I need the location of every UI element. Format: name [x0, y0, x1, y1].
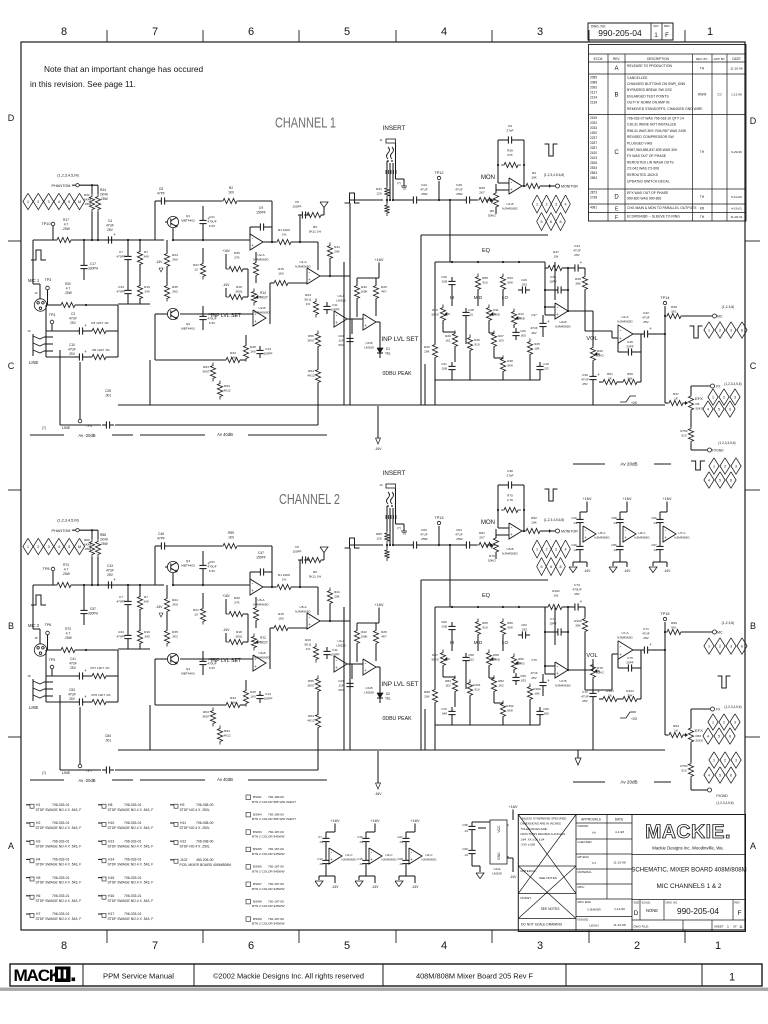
svg-text:.01: .01: [573, 521, 577, 525]
svg-text:R25: R25: [381, 630, 387, 634]
svg-text:U6-C: U6-C: [638, 531, 646, 535]
svg-text:C23: C23: [338, 334, 344, 338]
svg-text:C4: C4: [108, 219, 112, 223]
svg-text:C26: C26: [520, 329, 526, 333]
svg-text:MBT4403: MBT4403: [181, 218, 195, 222]
svg-text:SEE NOTES: SEE NOTES: [541, 907, 561, 911]
svg-text:ECO#094380 -- SLEEVE TO RING: ECO#094380 -- SLEEVE TO RING: [627, 214, 680, 218]
svg-text:50V: 50V: [338, 688, 343, 692]
svg-text:F: F: [665, 33, 669, 39]
svg-text:C67: C67: [651, 543, 657, 547]
EQ MID band resistor: [475, 274, 480, 293]
MONITOR output connector: [540, 530, 549, 532]
svg-text:C37: C37: [531, 313, 537, 317]
svg-text:50KG: 50KG: [596, 670, 605, 674]
svg-text:4K12: 4K12: [307, 373, 315, 377]
svg-text:C39: C39: [462, 847, 468, 851]
svg-text:ENLARGED TEST POINTS: ENLARGED TEST POINTS: [627, 94, 669, 98]
svg-text:R83: R83: [445, 679, 451, 683]
svg-text:20PF: 20PF: [626, 344, 634, 348]
FX connector diamonds: [708, 714, 718, 730]
svg-text:R63: R63: [224, 384, 230, 388]
svg-text:50K9: 50K9: [431, 312, 438, 316]
svg-text:5K11 1%: 5K11 1%: [309, 574, 322, 578]
svg-text:LEIGH: LEIGH: [589, 924, 598, 928]
svg-text:1: 1: [27, 200, 29, 204]
svg-text:50KB: 50KB: [492, 657, 499, 661]
EQ vertical rails: [554, 607, 556, 645]
svg-text:PCB, MIXER BOARD 408M/808M: PCB, MIXER BOARD 408M/808M: [180, 863, 232, 867]
EQ top bus wire: [435, 606, 545, 608]
resistor R89: [89, 539, 94, 558]
mic coupling cap C3: [75, 330, 79, 332]
svg-text:2092: 2092: [590, 85, 597, 89]
svg-text:10K: 10K: [531, 175, 537, 179]
svg-text:+: +: [410, 857, 413, 862]
svg-text:R84: R84: [498, 679, 504, 683]
svg-text:11-20-98: 11-20-98: [730, 66, 742, 70]
svg-text:+: +: [364, 668, 367, 673]
svg-text:APPROVALS: APPROVALS: [581, 818, 602, 822]
svg-text:BTN 2 COLOR 945WW: BTN 2 COLOR 945WW: [252, 922, 285, 926]
svg-text:10: 10: [194, 267, 198, 271]
svg-text:6K49: 6K49: [84, 542, 92, 546]
svg-text:D: D: [8, 113, 15, 123]
cap C9: [256, 226, 260, 228]
svg-text:706-033-01: 706-033-01: [52, 803, 69, 807]
svg-text:(1,2,3,6): (1,2,3,6): [722, 305, 735, 309]
svg-text:.001: .001: [105, 393, 112, 397]
EQ LO pot: [511, 309, 516, 328]
inverted pulse near MC: [690, 326, 703, 338]
LED D1: [377, 348, 383, 353]
svg-text:6: 6: [550, 565, 552, 569]
svg-text:100K: 100K: [360, 289, 368, 293]
svg-text:.01B: .01B: [441, 366, 447, 370]
output cap C32 47UF: [633, 333, 640, 335]
svg-text:C13: C13: [265, 692, 271, 696]
standoff H13: [102, 841, 106, 845]
svg-text:(1,2,3,4,5,6,8): (1,2,3,4,5,6,8): [544, 173, 565, 177]
gain ramp +20 symbol: [620, 712, 636, 718]
resistor R42: [354, 283, 359, 302]
svg-text:H1: H1: [36, 803, 40, 807]
op-amp U1-A: [307, 268, 320, 284]
svg-text:3: 3: [734, 396, 736, 400]
svg-text:SHEET: SHEET: [714, 925, 724, 929]
svg-text:R45: R45: [250, 345, 256, 349]
EQ resistor R27: [491, 331, 496, 350]
svg-text:STDF SWAGE NO.4 X .543, F: STDF SWAGE NO.4 X .543, F: [36, 917, 82, 921]
svg-text:+: +: [597, 372, 600, 377]
svg-text:706-033-01: 706-033-01: [52, 912, 69, 916]
EQ LO band resistor: [500, 619, 505, 638]
op-amp U5-A: [307, 613, 320, 629]
svg-text:150PF: 150PF: [330, 652, 339, 656]
op-amp U2-B: [253, 310, 266, 326]
svg-text:C56: C56: [611, 543, 617, 547]
svg-text:6: 6: [741, 329, 743, 333]
svg-text:J3: J3: [27, 329, 31, 333]
svg-text:+: +: [251, 588, 254, 593]
svg-text:.01: .01: [399, 862, 403, 866]
svg-text:5: 5: [719, 774, 721, 778]
svg-text:R104: R104: [626, 689, 634, 693]
svg-text:R18: R18: [236, 630, 242, 634]
EQ resistor R45 10K: [527, 684, 532, 703]
svg-text:-16V: -16V: [374, 447, 382, 451]
rail wire x421: [420, 235, 422, 405]
svg-text:760-187-00: 760-187-00: [268, 882, 284, 886]
button switch BSW7: [246, 882, 251, 887]
svg-text:3K57: 3K57: [202, 369, 210, 373]
svg-text:Av 40dB: Av 40dB: [217, 777, 233, 782]
svg-text:.25W: .25W: [62, 572, 71, 576]
svg-text:C: C: [750, 361, 757, 371]
svg-text:706-033-01: 706-033-01: [124, 912, 141, 916]
svg-text:C21: C21: [209, 215, 215, 219]
svg-text:8: 8: [559, 565, 561, 569]
svg-text:50KB: 50KB: [517, 316, 524, 320]
svg-text:5K11: 5K11: [305, 297, 312, 301]
svg-text:F: F: [615, 215, 618, 221]
resistor R26: [432, 687, 437, 706]
svg-text:11-23-98: 11-23-98: [613, 923, 625, 927]
electrolytic C61: [202, 561, 204, 565]
svg-text:+: +: [113, 577, 116, 582]
svg-text:REV. BY.: REV. BY.: [696, 57, 708, 61]
svg-text:EFX: EFX: [695, 728, 703, 733]
svg-text:R46: R46: [474, 338, 480, 342]
svg-text:1W: 1W: [554, 254, 559, 258]
cap C47: [256, 571, 260, 573]
resistor R6: [89, 699, 109, 704]
svg-text:2: 2: [634, 940, 640, 952]
svg-text:2237: 2237: [590, 136, 597, 140]
svg-text:706-033-01: 706-033-01: [52, 821, 69, 825]
svg-text:1K0: 1K0: [278, 271, 284, 275]
svg-text:NJM4565G: NJM4565G: [341, 857, 357, 861]
square wave mid: [345, 538, 360, 548]
svg-text:in this revision. See page 11.: in this revision. See page 11.: [30, 79, 136, 89]
svg-text:6.3V: 6.3V: [209, 569, 216, 573]
svg-text:(1,2,3,4,5,6): (1,2,3,4,5,6): [716, 801, 733, 805]
svg-text:1%: 1%: [282, 232, 287, 236]
svg-text:+: +: [580, 260, 583, 265]
svg-text:R44: R44: [100, 188, 106, 192]
transistor Q2: [167, 308, 178, 319]
grid tick marks top: [106, 30, 108, 42]
svg-text:NJM4565G: NJM4565G: [617, 319, 633, 323]
svg-text:LINE: LINE: [29, 705, 39, 710]
cap C64: [462, 544, 466, 546]
svg-text:-16V: -16V: [372, 885, 380, 889]
svg-text:C58: C58: [611, 516, 617, 520]
svg-text:1: 1: [729, 972, 735, 984]
svg-text:+: +: [254, 319, 257, 324]
svg-text:7: 7: [152, 26, 158, 38]
svg-text:760-187-00: 760-187-00: [268, 847, 284, 851]
svg-text:MATERIAL:: MATERIAL:: [578, 870, 593, 874]
svg-text:2K49: 2K49: [100, 192, 108, 196]
feedback cap C45: [155, 545, 157, 547]
svg-text:BTN 2 COLOR 945WW: BTN 2 COLOR 945WW: [252, 835, 285, 839]
svg-text:47UF: 47UF: [420, 532, 428, 536]
svg-text:+: +: [580, 599, 583, 604]
svg-text:2.7K: 2.7K: [507, 498, 514, 502]
svg-text:R76 12K7 1%: R76 12K7 1%: [91, 693, 110, 697]
svg-text:C62: C62: [521, 623, 527, 627]
svg-text:SIZE: SIZE: [634, 901, 640, 905]
button switch BSW3: [246, 830, 251, 835]
op-amp U6-B: [253, 655, 266, 671]
grid tick marks bottom: [106, 930, 108, 943]
svg-text:C7: C7: [318, 835, 322, 839]
resistor R21: [200, 261, 205, 280]
svg-text:C32: C32: [643, 311, 649, 315]
svg-text:+: +: [335, 665, 338, 670]
svg-text:4K12: 4K12: [307, 718, 315, 722]
svg-text:R58: R58: [482, 276, 488, 280]
svg-text:C72: C72: [582, 690, 588, 694]
standoff H10: [102, 822, 106, 826]
volume pot R22 50KG: [590, 345, 595, 364]
standoff H16: [102, 895, 106, 899]
op-amp U4-B: [555, 303, 568, 319]
electrolytic C62: [202, 657, 204, 661]
svg-text:R64: R64: [203, 710, 209, 714]
cap C11: [326, 302, 328, 306]
svg-text:47UF: 47UF: [68, 347, 76, 351]
svg-text:Av 20dB: Av 20dB: [620, 462, 637, 467]
svg-text:U5-C: U5-C: [598, 531, 606, 535]
svg-text:BTN 2 COLOR 945WW: BTN 2 COLOR 945WW: [252, 887, 285, 891]
EFX pot R66 50KG: [683, 734, 685, 736]
svg-text:R103: R103: [606, 689, 614, 693]
svg-text:+: +: [370, 857, 373, 862]
resistor R752 510: [690, 411, 692, 428]
svg-text:47UF: 47UF: [68, 692, 76, 696]
svg-text:APP. BY.: APP. BY.: [714, 57, 726, 61]
svg-text:MON: MON: [481, 175, 495, 181]
svg-text:C10: C10: [69, 343, 75, 347]
svg-text:510: 510: [681, 768, 686, 772]
resistor R91: [476, 542, 496, 547]
svg-text:C31: C31: [441, 362, 447, 366]
svg-text:R96: R96: [671, 621, 677, 625]
svg-text:25V: 25V: [70, 321, 77, 325]
svg-text:330PH: 330PH: [88, 611, 99, 615]
svg-text:6.3V: 6.3V: [209, 321, 216, 325]
svg-text:10K: 10K: [534, 346, 539, 350]
svg-text:C7: C7: [119, 250, 123, 254]
svg-text:-16V: -16V: [510, 875, 518, 879]
svg-text:1-12-99: 1-12-99: [731, 93, 742, 97]
svg-text:+16V: +16V: [222, 594, 230, 598]
svg-text:.033: .033: [520, 678, 526, 682]
svg-text:+16V: +16V: [331, 819, 340, 823]
svg-text:1: 1: [713, 465, 715, 469]
svg-text:.25W: .25W: [455, 192, 462, 196]
MC connector diamonds: [704, 322, 714, 338]
svg-text:30K: 30K: [575, 623, 581, 627]
svg-text:1K0: 1K0: [278, 616, 284, 620]
button switch BSW1: [246, 795, 251, 800]
svg-text:R752: R752: [680, 429, 688, 433]
svg-text:SCHEMATIC, MIXER BOARD 408M/80: SCHEMATIC, MIXER BOARD 408M/808M: [631, 867, 746, 874]
svg-text:R3 12K7 1%: R3 12K7 1%: [91, 321, 109, 325]
svg-text:H4: H4: [36, 858, 40, 862]
title block size/scale/dwg-no row: [639, 900, 641, 921]
svg-text:Av -20dB: Av -20dB: [78, 778, 95, 783]
svg-text:R25: R25: [381, 285, 387, 289]
svg-text:760-189-00: 760-189-00: [268, 795, 284, 799]
svg-text:C70: C70: [441, 707, 447, 711]
svg-text:R23: R23: [305, 638, 311, 642]
svg-text:NJM4565G: NJM4565G: [381, 857, 397, 861]
svg-text:+: +: [84, 694, 87, 699]
svg-text:1: 1: [536, 203, 538, 207]
svg-text:25V: 25V: [107, 228, 114, 232]
svg-text:+: +: [84, 349, 87, 354]
svg-text:50KG: 50KG: [488, 213, 497, 217]
svg-text:H6: H6: [36, 894, 40, 898]
svg-text:706-038-00: 706-038-00: [196, 821, 213, 825]
svg-text:LINE: LINE: [29, 360, 39, 365]
svg-text:R42: R42: [361, 285, 367, 289]
svg-text:990-205-04: 990-205-04: [598, 28, 642, 38]
svg-text:UNLESS OTHERWISE SPECIFIED: UNLESS OTHERWISE SPECIFIED: [521, 817, 567, 821]
svg-text:408M/808M Mixer Board 205 Rev: 408M/808M Mixer Board 205 Rev F: [416, 972, 534, 981]
svg-text:C30,31 WERE NOT INSTALLED: C30,31 WERE NOT INSTALLED: [627, 123, 677, 127]
svg-text:3K0: 3K0: [172, 257, 178, 261]
EQ resistor R29: [452, 331, 457, 350]
svg-text:5K2Y: 5K2Y: [260, 641, 269, 645]
svg-text:6.3V: 6.3V: [209, 666, 216, 670]
svg-text:+20: +20: [631, 401, 637, 405]
standoff H6: [30, 895, 34, 899]
svg-text:Note that an important change: Note that an important change has occure…: [44, 64, 204, 74]
svg-text:BYPASSED BREAK SW OSC: BYPASSED BREAK SW OSC: [627, 88, 673, 92]
svg-text:100K: 100K: [360, 634, 368, 638]
svg-text:10PY: 10PY: [549, 621, 557, 625]
svg-text:TP8: TP8: [43, 567, 50, 571]
cap C48 27pF: [504, 484, 508, 486]
line-level cap C25: [60, 424, 101, 426]
svg-text:+: +: [547, 678, 550, 683]
svg-text:.01B: .01B: [441, 624, 447, 628]
svg-text:BSW3: BSW3: [253, 830, 262, 834]
svg-text:5: 5: [719, 479, 721, 483]
svg-text:R100: R100: [533, 687, 541, 691]
svg-text:+: +: [510, 532, 513, 537]
svg-text:J102: J102: [180, 858, 187, 862]
svg-text:.2/3: .2/3: [543, 366, 548, 370]
button switch BSW9: [246, 917, 251, 922]
svg-text:CHECKED: CHECKED: [578, 840, 592, 844]
svg-text:C28: C28: [456, 183, 462, 187]
svg-text:.033: .033: [521, 627, 527, 631]
svg-text:5: 5: [344, 26, 350, 38]
svg-text:PLUGGED VIAS: PLUGGED VIAS: [627, 142, 653, 146]
svg-text:U3-B: U3-B: [365, 341, 372, 345]
svg-text:-16V: -16V: [332, 885, 340, 889]
svg-text:25V: 25V: [69, 352, 76, 356]
svg-text:(7): (7): [397, 181, 401, 185]
trimmer R14 INP LVL SET: [251, 634, 256, 651]
EQ cap C31: [451, 362, 453, 366]
svg-text:CHANNEL 1: CHANNEL 1: [275, 115, 336, 132]
LED D2: [377, 693, 383, 698]
transistor Q4: [167, 653, 178, 664]
svg-text:3: 3: [730, 645, 732, 649]
chassis ground at insert: [396, 523, 405, 525]
svg-text:R16: R16: [144, 285, 150, 289]
svg-text:KR: KR: [700, 207, 705, 211]
svg-text:MP ENG: MP ENG: [578, 855, 590, 859]
resistor R104 30K: [620, 696, 640, 701]
svg-text:2: 2: [545, 203, 547, 207]
svg-text:.048: .048: [441, 711, 447, 715]
svg-text:R42: R42: [361, 630, 367, 634]
svg-text:J6: J6: [27, 674, 31, 678]
svg-text:2563: 2563: [590, 176, 597, 180]
EQ resistor R46: [467, 680, 472, 699]
svg-text:R23: R23: [305, 293, 311, 297]
svg-text:R8: R8: [490, 209, 494, 213]
post stage wires: [545, 606, 548, 608]
svg-text:1: 1: [715, 940, 721, 952]
resistor R56: [315, 676, 320, 695]
feedback resistor R2: [220, 198, 240, 203]
svg-text:R33: R33: [507, 276, 513, 280]
op-amp U2-A: [250, 234, 263, 250]
svg-text:STDF SWAGE NO.4 X .543, F: STDF SWAGE NO.4 X .543, F: [36, 844, 82, 848]
svg-text:47UF: 47UF: [69, 661, 77, 665]
svg-text:C73: C73: [574, 583, 580, 587]
svg-text:U5-A: U5-A: [299, 605, 307, 609]
cap C9 27pF: [504, 139, 508, 141]
svg-text:D: D: [750, 116, 757, 126]
svg-text:1-14-99: 1-14-99: [614, 907, 625, 911]
svg-text:470PF: 470PF: [116, 599, 125, 603]
svg-text:+: +: [556, 312, 559, 317]
svg-text:5-10-00: 5-10-00: [731, 195, 742, 199]
svg-text:R6 12K7 1%: R6 12K7 1%: [92, 348, 110, 352]
svg-text:DESCRIPTION: DESCRIPTION: [647, 57, 669, 61]
svg-text:C11: C11: [332, 648, 338, 652]
svg-text:INP LVL SET: INP LVL SET: [381, 336, 418, 343]
svg-text:50K9: 50K9: [431, 657, 438, 661]
FXGND diamonds: [709, 752, 719, 768]
svg-text:+16V: +16V: [509, 805, 518, 809]
svg-text:+16V: +16V: [375, 603, 384, 607]
svg-text:30K: 30K: [575, 281, 581, 285]
svg-text:FINISH:: FINISH:: [521, 896, 532, 900]
inverted pulse near MC: [718, 676, 731, 688]
feedback resistor R27: [253, 260, 258, 279]
resistor R36: [476, 197, 496, 202]
svg-text:(1,2,3,4,5,M): (1,2,3,4,5,M): [57, 174, 79, 178]
svg-text:.01: .01: [613, 521, 617, 525]
svg-text:27K: 27K: [234, 255, 240, 259]
grid tick marks right: [744, 759, 746, 761]
svg-text:8: 8: [559, 220, 561, 224]
svg-text:LINE: LINE: [62, 426, 71, 430]
svg-text:STDF SWAGE NO.4 X .543, F: STDF SWAGE NO.4 X .543, F: [108, 899, 154, 903]
EQ cap C31: [451, 707, 453, 711]
svg-text:.012: .012: [468, 657, 474, 661]
